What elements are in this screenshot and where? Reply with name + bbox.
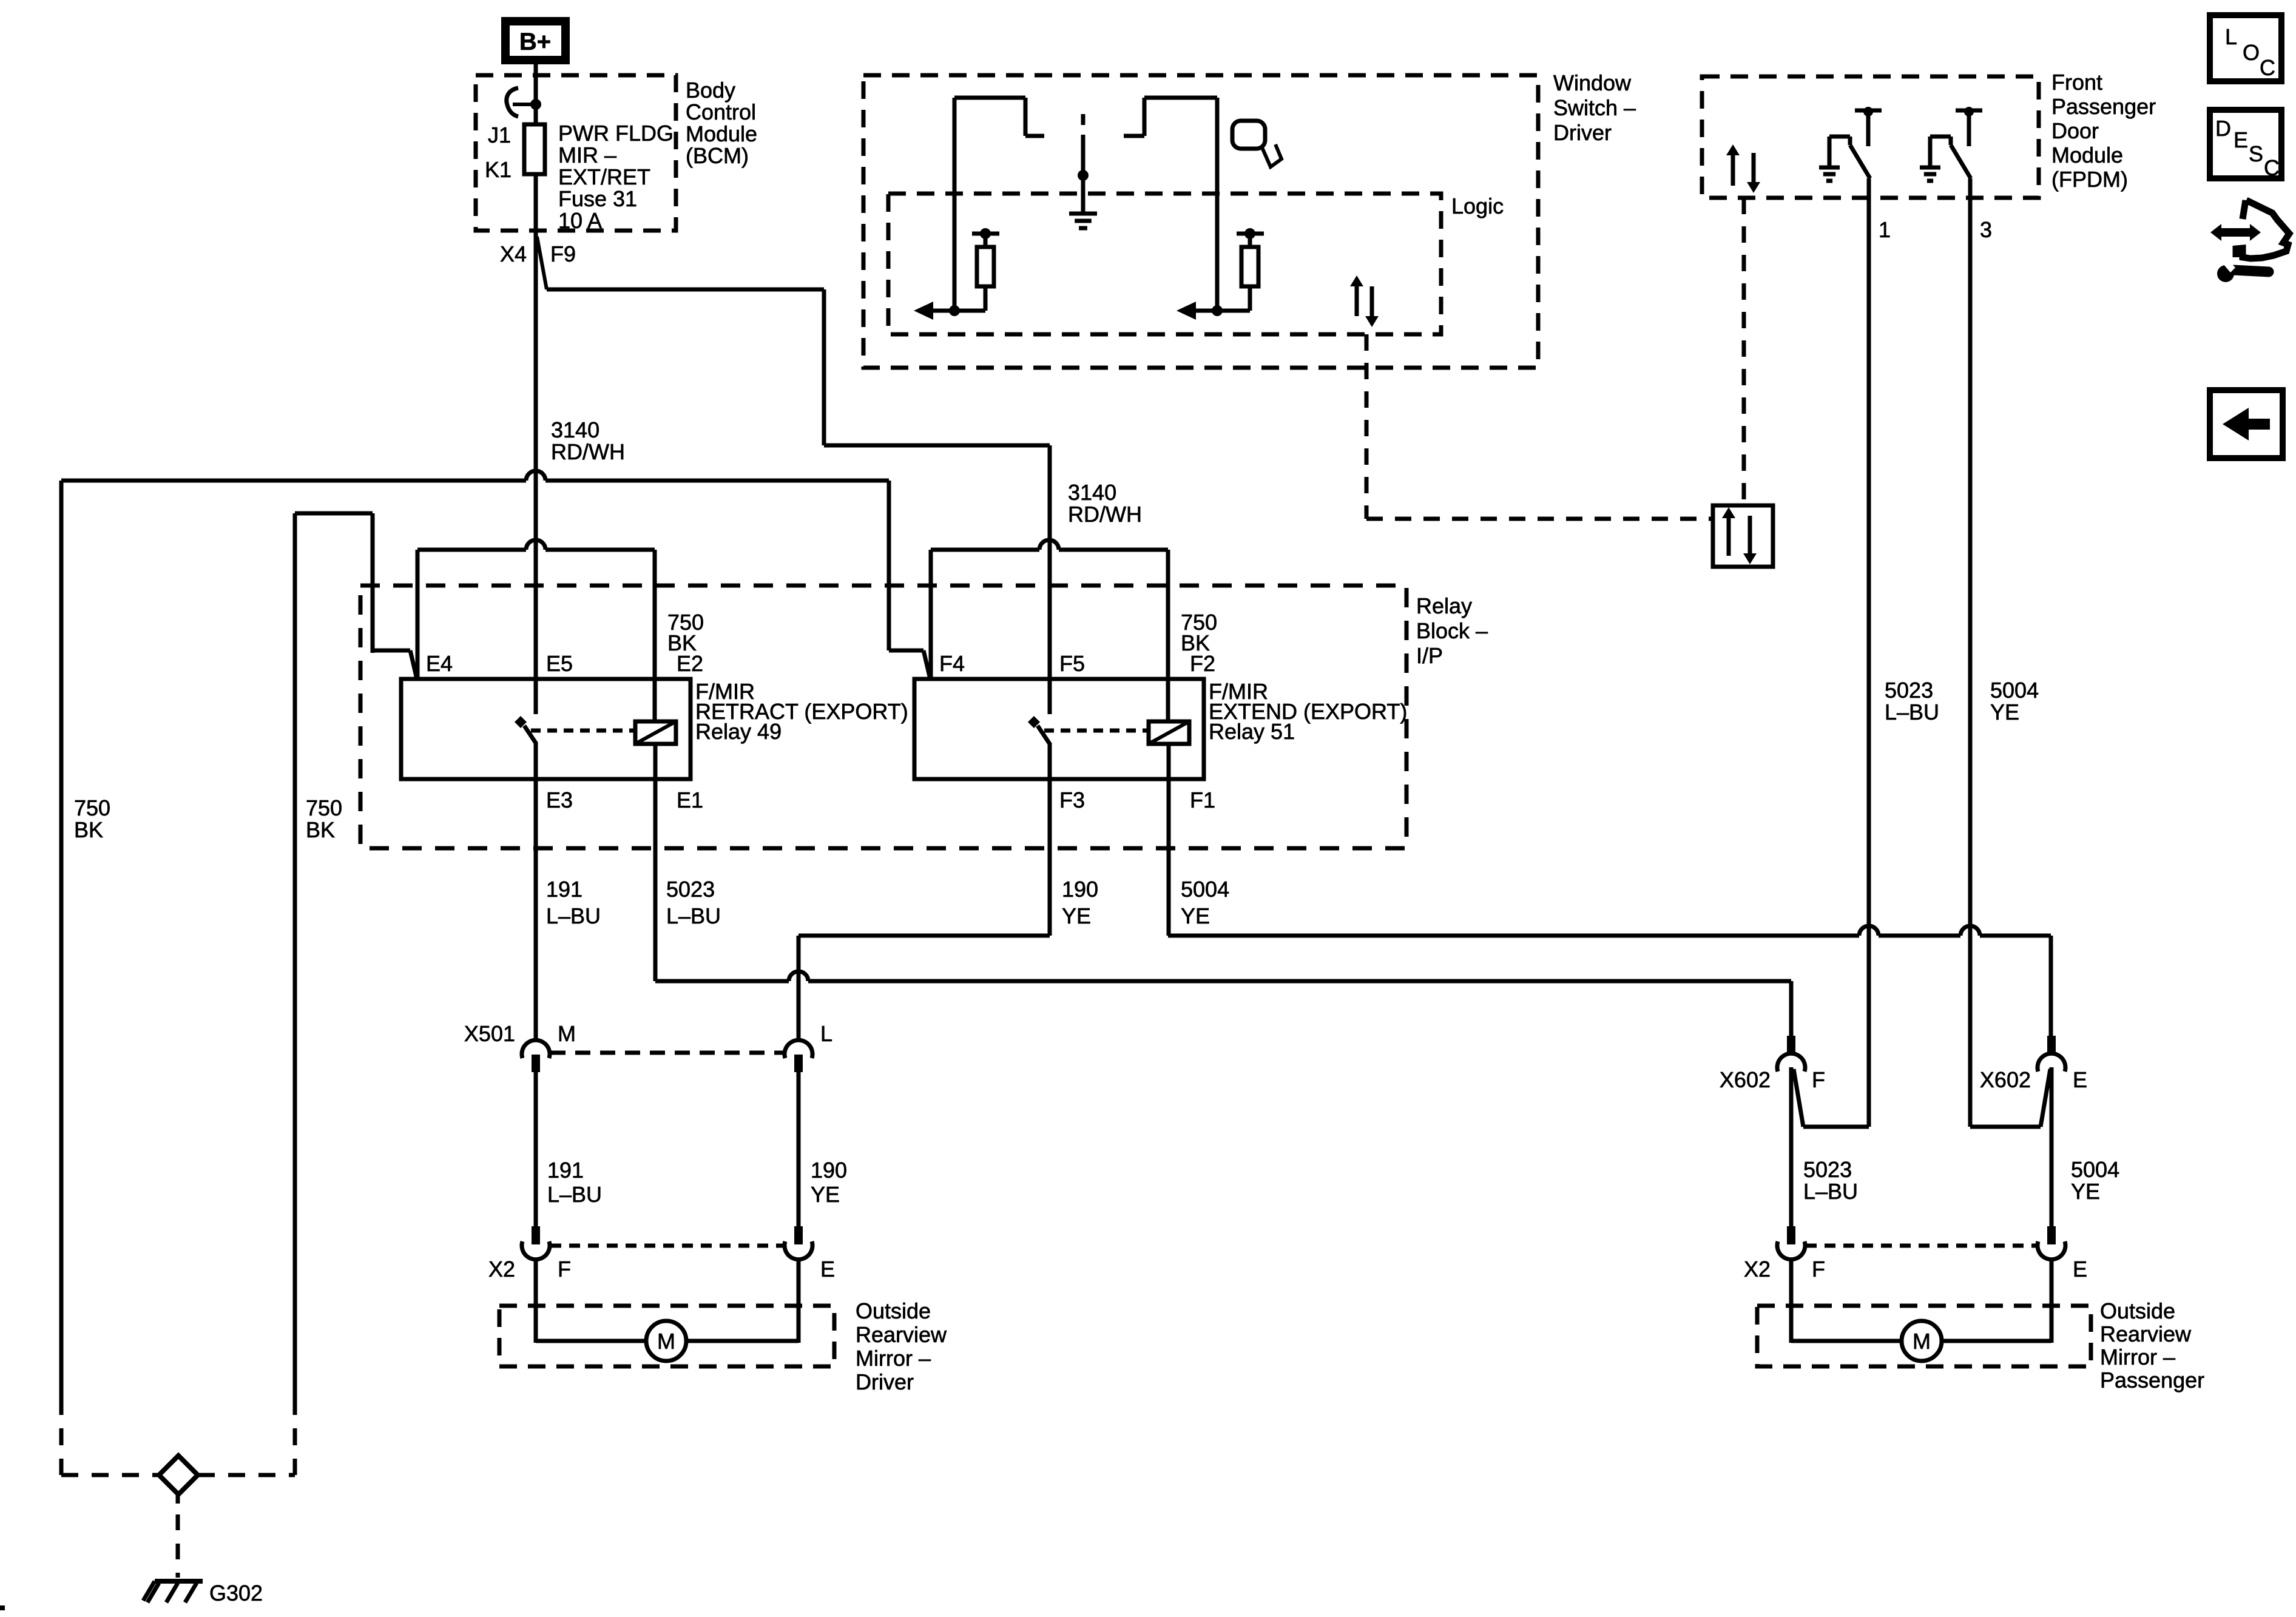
svg-text:PWR FLDG: PWR FLDG — [558, 121, 674, 146]
svg-text:E: E — [2073, 1257, 2087, 1281]
svg-text:E: E — [2073, 1067, 2087, 1092]
svg-text:X602: X602 — [1980, 1067, 2031, 1092]
svg-text:3140: 3140 — [551, 417, 599, 442]
svg-text:Outside: Outside — [856, 1298, 931, 1323]
svg-text:Driver: Driver — [1553, 120, 1612, 145]
svg-text:L–BU: L–BU — [1885, 700, 1939, 724]
svg-text:F: F — [558, 1257, 571, 1281]
svg-text:C: C — [2264, 155, 2280, 180]
svg-text:(BCM): (BCM) — [686, 143, 749, 168]
svg-text:F: F — [1812, 1257, 1825, 1281]
svg-text:YE: YE — [1062, 903, 1091, 928]
svg-text:Relay 51: Relay 51 — [1209, 719, 1295, 744]
svg-text:L–BU: L–BU — [546, 903, 601, 928]
svg-text:(FPDM): (FPDM) — [2051, 167, 2128, 192]
svg-text:1: 1 — [1879, 217, 1891, 242]
svg-text:5004: 5004 — [1990, 678, 2039, 703]
svg-text:750: 750 — [74, 795, 110, 820]
svg-text:BK: BK — [306, 817, 335, 842]
svg-text:E5: E5 — [546, 651, 573, 676]
svg-text:EXT/RET: EXT/RET — [558, 164, 650, 189]
svg-text:Switch –: Switch – — [1553, 95, 1636, 120]
svg-text:E: E — [2234, 127, 2248, 152]
svg-text:MIR –: MIR – — [558, 143, 616, 167]
svg-text:M: M — [657, 1329, 675, 1354]
svg-text:G302: G302 — [209, 1581, 263, 1605]
svg-text:750: 750 — [306, 795, 342, 820]
svg-text:C: C — [2260, 55, 2275, 80]
svg-text:E4: E4 — [426, 651, 453, 676]
svg-text:E: E — [820, 1257, 835, 1281]
svg-text:F4: F4 — [939, 651, 965, 676]
svg-text:X501: X501 — [464, 1021, 515, 1046]
svg-text:M: M — [1913, 1329, 1931, 1354]
svg-text:5004: 5004 — [2071, 1157, 2119, 1182]
svg-text:3: 3 — [1980, 217, 1992, 242]
svg-text:L–BU: L–BU — [547, 1182, 602, 1207]
svg-text:F1: F1 — [1190, 788, 1215, 812]
svg-text:191: 191 — [547, 1158, 584, 1183]
svg-text:L: L — [2225, 24, 2237, 49]
svg-text:YE: YE — [1990, 700, 2019, 724]
svg-text:F: F — [1812, 1067, 1825, 1092]
svg-text:BK: BK — [74, 817, 103, 842]
svg-text:D: D — [2215, 116, 2231, 141]
svg-text:L–BU: L–BU — [666, 903, 721, 928]
svg-text:5023: 5023 — [1803, 1157, 1852, 1182]
svg-text:E1: E1 — [677, 788, 703, 812]
svg-text:L–BU: L–BU — [1803, 1179, 1858, 1204]
svg-text:F3: F3 — [1059, 788, 1085, 812]
svg-text:Rearview: Rearview — [2100, 1322, 2192, 1346]
svg-text:Fuse 31: Fuse 31 — [558, 186, 637, 211]
svg-text:Rearview: Rearview — [856, 1322, 947, 1347]
svg-text:191: 191 — [546, 877, 582, 902]
svg-text:Window: Window — [1553, 70, 1632, 95]
svg-text:Module: Module — [2051, 143, 2123, 167]
svg-text:RD/WH: RD/WH — [551, 439, 625, 464]
svg-text:5023: 5023 — [1885, 678, 1933, 703]
svg-text:F9: F9 — [550, 241, 576, 266]
svg-text:10 A: 10 A — [558, 208, 602, 233]
svg-text:X2: X2 — [1744, 1257, 1771, 1281]
svg-text:3140: 3140 — [1068, 480, 1116, 505]
svg-text:YE: YE — [2071, 1179, 2100, 1204]
svg-text:Front: Front — [2051, 70, 2102, 95]
svg-text:YE: YE — [811, 1182, 840, 1207]
svg-text:Driver: Driver — [856, 1369, 914, 1394]
svg-text:Passenger: Passenger — [2051, 94, 2156, 119]
svg-text:Relay 49: Relay 49 — [695, 719, 782, 744]
svg-text:X4: X4 — [500, 241, 527, 266]
svg-text:M: M — [558, 1021, 576, 1046]
svg-text:Control: Control — [686, 100, 756, 124]
svg-text:Passenger: Passenger — [2100, 1368, 2204, 1393]
svg-text:Mirror –: Mirror – — [856, 1346, 931, 1371]
svg-text:5004: 5004 — [1181, 877, 1229, 902]
svg-text:Relay: Relay — [1416, 593, 1472, 618]
svg-text:F5: F5 — [1059, 651, 1085, 676]
svg-text:YE: YE — [1181, 903, 1210, 928]
svg-text:X2: X2 — [488, 1257, 515, 1281]
svg-text:Block –: Block – — [1416, 618, 1488, 643]
svg-text:RD/WH: RD/WH — [1068, 502, 1142, 527]
svg-text:BK: BK — [1181, 630, 1210, 655]
svg-text:O: O — [2243, 40, 2260, 65]
svg-text:5023: 5023 — [666, 877, 715, 902]
svg-text:Body: Body — [686, 78, 735, 103]
svg-text:L: L — [820, 1021, 832, 1046]
svg-text:Outside: Outside — [2100, 1298, 2175, 1323]
svg-text:BK: BK — [667, 630, 697, 655]
svg-text:X602: X602 — [1720, 1067, 1771, 1092]
svg-text:I/P: I/P — [1416, 643, 1443, 668]
svg-text:J1: J1 — [488, 123, 511, 147]
svg-text:Logic: Logic — [1451, 194, 1504, 218]
svg-text:Mirror –: Mirror – — [2100, 1345, 2175, 1369]
svg-text:K1: K1 — [485, 157, 512, 182]
svg-text:B+: B+ — [519, 29, 551, 55]
svg-text:190: 190 — [1062, 877, 1098, 902]
svg-text:Module: Module — [686, 121, 757, 146]
svg-text:Door: Door — [2051, 118, 2099, 143]
svg-text:E3: E3 — [546, 788, 573, 812]
svg-text:S: S — [2249, 141, 2263, 166]
svg-text:190: 190 — [811, 1158, 847, 1183]
